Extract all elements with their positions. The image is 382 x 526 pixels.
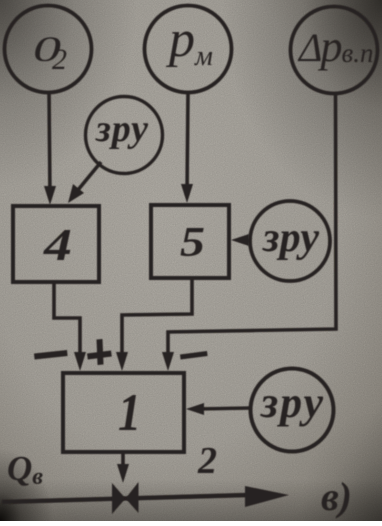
- pipe line with flow: [2, 495, 248, 502]
- block 4: [13, 206, 99, 282]
- wire block5 to block1: [122, 278, 192, 362]
- arrowhead block1 to valve: [117, 464, 129, 483]
- block 1: [63, 373, 184, 452]
- valve right triangle: [126, 482, 139, 513]
- svg-text:2: 2: [52, 43, 67, 76]
- block 5: [151, 205, 229, 278]
- wire block1 down to valve: [121, 453, 125, 473]
- setter circle ZRU middle: [250, 201, 330, 281]
- svg-text:4: 4: [43, 219, 72, 270]
- svg-text:зру: зру: [95, 108, 148, 150]
- valve left triangle: [112, 483, 126, 514]
- arrowhead into block5 from Pm: [181, 184, 193, 203]
- arrowhead into block1 left (+ input from block4): [74, 352, 86, 371]
- svg-text:2: 2: [197, 440, 217, 482]
- arrowhead into block4 from O2: [44, 186, 56, 205]
- plus sign: [87, 351, 112, 360]
- pipe flow arrowhead: [245, 486, 289, 507]
- wire dP down right side and across to block1: [168, 93, 336, 362]
- arrowhead into block1 from ZRU-lower: [186, 403, 204, 415]
- sensor circle O2: [5, 6, 92, 93]
- minus sign left: [34, 350, 68, 360]
- arrowhead into block1 middle (from block5): [116, 352, 128, 371]
- svg-text:5: 5: [180, 220, 205, 266]
- setter circle ZRU lower: [251, 369, 334, 452]
- svg-text:зру: зру: [260, 378, 323, 427]
- wire block4 to block1: [54, 282, 80, 362]
- wire O2 to block4: [49, 92, 50, 196]
- sensor circle Pm: [145, 6, 232, 93]
- wire Pm to block5: [187, 93, 188, 195]
- minus sign right: [180, 351, 208, 360]
- wire ZRU-lower to block1: [196, 408, 250, 409]
- setter circle ZRU upper: [86, 97, 163, 174]
- sensor circle dP v.p: [291, 7, 378, 94]
- arrowhead into block4 from ZRU-upper: [68, 184, 84, 203]
- wire ZRU-upper to block4 (diagonal): [73, 162, 101, 196]
- svg-text:зру: зру: [262, 215, 319, 261]
- svg-text:1: 1: [118, 384, 141, 442]
- svg-text:в): в): [321, 474, 352, 519]
- arrowhead into block5 from ZRU-middle: [231, 234, 249, 246]
- wire ZRU-middle to block5: [239, 240, 249, 241]
- arrowhead into block1 right (from dP): [162, 352, 174, 371]
